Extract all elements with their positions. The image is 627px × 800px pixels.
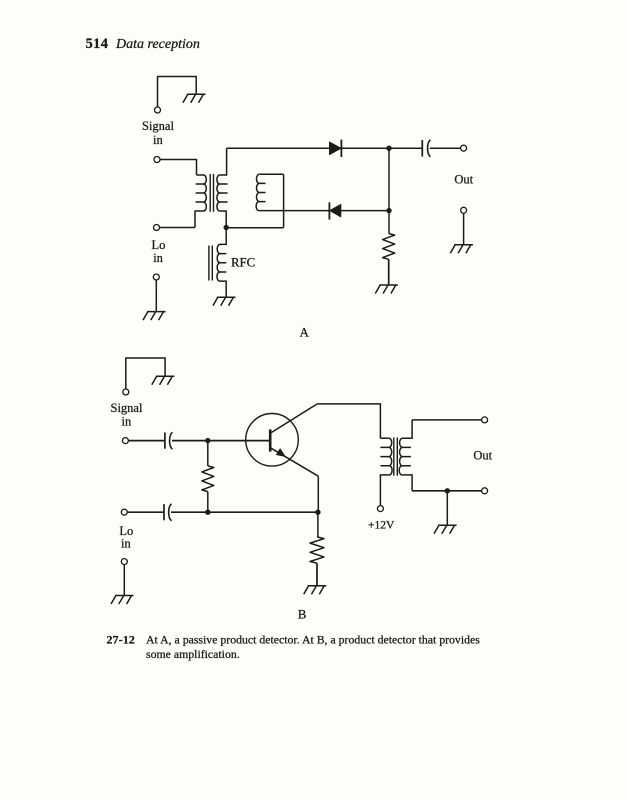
ground (circuit A top-left): [183, 94, 206, 103]
svg-text:Data reception: Data reception: [115, 37, 200, 52]
label Signal in (circuit A): [142, 119, 174, 147]
resistor R1 (base bias, circuit B): [202, 441, 214, 513]
transformer T2 primary winding: [380, 438, 392, 505]
wire terminal to ground (circuit A top-left): [158, 77, 197, 108]
junction node top rail: [386, 146, 391, 151]
wire Q1 collector to transformer T2 primary: [317, 404, 380, 438]
wire T2 secondary bottom to Out terminal: [412, 490, 482, 492]
transformer T1 secondary winding: [217, 148, 228, 227]
junction node LO/base-resistor: [205, 510, 210, 515]
wire capacitor C3 along LO line to emitter junction: [171, 511, 318, 513]
terminal Out top (circuit B): [482, 417, 488, 423]
capacitor C3 (LO input coupling): [164, 504, 172, 521]
svg-text:in: in: [121, 536, 131, 550]
wire signal-in terminal to capacitor C2: [129, 440, 165, 442]
ground (below resistor, circuit A): [375, 285, 398, 294]
svg-text:in: in: [153, 133, 163, 147]
label Out (circuit A): [454, 172, 473, 186]
transformer T1 core: [210, 174, 213, 212]
svg-text:+12V: +12V: [368, 520, 395, 532]
svg-text:in: in: [122, 414, 132, 428]
ground (Out return, circuit A): [450, 245, 473, 254]
RFC core: [209, 246, 212, 281]
wire junction rail down to lower junction: [388, 148, 390, 210]
transistor Q1: [246, 404, 319, 476]
svg-text:Out: Out: [454, 172, 473, 186]
terminal Lo in (circuit B): [121, 509, 127, 515]
inductor L1 (tuned coil): [256, 174, 283, 210]
terminal +12V: [377, 506, 383, 512]
wire diode D1 to junction: [341, 147, 422, 149]
svg-text:Out: Out: [473, 448, 492, 462]
label RFC: [231, 256, 255, 270]
figure caption: [107, 633, 481, 661]
wire L1 right side loop: [283, 174, 285, 227]
transformer T2 core: [394, 438, 398, 476]
wire Q1 emitter down to emitter junction: [317, 476, 319, 512]
svg-text:A: A: [300, 325, 310, 340]
wire capacitor C1 to Out terminal: [430, 147, 461, 149]
ground (Lo-in stub, circuit B): [111, 596, 134, 605]
terminal Out bottom (circuit B): [482, 488, 488, 494]
terminal (signal-in ground stub, circuit B): [123, 389, 129, 395]
wire T1 secondary bottom to L1 loop: [226, 227, 283, 229]
label +12V: [368, 520, 395, 532]
resistor R2 (emitter, circuit B): [310, 512, 324, 586]
diode D2: [329, 202, 340, 219]
terminal Signal in (circuit B): [122, 438, 128, 444]
capacitor C1 (output coupling, circuit A): [422, 140, 430, 157]
junction node LO/emitter: [315, 510, 320, 515]
terminal (Lo-in ground stub, circuit A): [153, 274, 159, 280]
junction node lower rail: [386, 208, 391, 213]
wire capacitor C2 to base junction: [172, 440, 208, 442]
wire Lo-in stub terminal to ground: [155, 280, 157, 312]
junction node base (circuit B): [205, 438, 210, 443]
transformer T1 primary winding: [195, 175, 206, 228]
svg-text:At A, a passive product detect: At A, a passive product detector. At B, …: [146, 633, 480, 647]
terminal Lo in (circuit A): [154, 225, 160, 231]
svg-text:some amplification.: some amplification.: [146, 647, 240, 661]
svg-text:RFC: RFC: [231, 256, 255, 270]
resistor R (detector load, circuit A): [383, 211, 395, 285]
svg-text:Signal: Signal: [142, 119, 174, 133]
wire Lo-in terminal to transformer T1 primary bottom: [160, 227, 195, 229]
diode D1: [330, 140, 342, 157]
label Signal in (circuit B): [111, 401, 143, 429]
terminal Out top (circuit A): [461, 145, 467, 151]
label Out (circuit B): [473, 448, 492, 462]
wire Out return junction to ground: [446, 491, 448, 526]
RFC choke coil: [217, 228, 226, 298]
label B: [298, 607, 307, 622]
terminal Signal in (circuit A): [154, 157, 160, 163]
wire L1 bottom to diode D2: [259, 210, 329, 212]
wire signal-in terminal to transformer T1 primary: [160, 160, 196, 176]
wire Lo-in stub terminal to ground: [123, 565, 125, 596]
page header: [86, 36, 200, 52]
ground (below emitter resistor): [304, 586, 327, 595]
wire diode D2 to lower junction: [341, 210, 389, 212]
capacitor C2 (signal input coupling): [165, 432, 173, 449]
ground (below RFC): [213, 297, 236, 306]
label Lo in (circuit A): [152, 238, 166, 265]
svg-text:in: in: [153, 251, 163, 265]
ground (Lo-in stub, circuit A): [143, 312, 166, 321]
wire Lo-in terminal to capacitor C3: [128, 511, 164, 513]
junction node Out return: [445, 488, 450, 493]
wire Out-bottom terminal to ground: [463, 213, 465, 245]
svg-text:27-12: 27-12: [107, 633, 136, 647]
wire base junction to transistor Q1 base: [208, 440, 269, 442]
transformer T2 secondary winding: [399, 420, 412, 491]
svg-text:514: 514: [86, 36, 109, 52]
label A: [300, 325, 310, 340]
terminal Out bottom (circuit A): [461, 207, 467, 213]
label Lo in (circuit B): [119, 524, 133, 550]
ground (circuit B top-left): [152, 376, 175, 385]
svg-text:B: B: [298, 607, 307, 622]
terminal (Lo-in ground stub, circuit B): [121, 559, 127, 565]
junction node at T1 secondary bottom: [224, 225, 229, 230]
ground (Out return, circuit B): [434, 525, 457, 534]
svg-text:Signal: Signal: [111, 401, 143, 415]
wire T2 secondary top to Out terminal: [412, 419, 482, 421]
wire T1 secondary top rail to diode D1: [227, 147, 330, 149]
wire terminal to ground (circuit B top-left): [126, 358, 165, 389]
terminal (signal-in ground stub, circuit A): [155, 107, 161, 113]
